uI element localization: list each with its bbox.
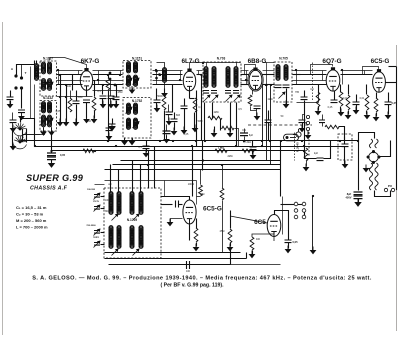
wire strip column down <box>312 197 314 251</box>
wire 6K7 bias resistor bottom <box>94 111 96 119</box>
wire drop x116 <box>116 85 118 97</box>
wire drop x103 <box>102 85 104 95</box>
wire osc link y160 <box>121 160 281 162</box>
svg-text:2MΩ: 2MΩ <box>227 155 232 158</box>
svg-text:50M: 50M <box>198 120 203 123</box>
wire antenna post to coil box <box>17 61 35 77</box>
wire x358 drop <box>358 141 360 191</box>
wire detector link down <box>318 93 320 103</box>
capacitor x116 <box>113 97 120 100</box>
junction bus x108 y141 <box>107 140 109 142</box>
wire 6L7 res down <box>194 113 196 129</box>
resistor AVC series left <box>83 149 94 153</box>
coil T3 primary b <box>127 75 131 86</box>
capacitor AVC bus <box>250 147 257 150</box>
coil output transformer primary top b <box>375 139 378 148</box>
junction channel b2 <box>65 96 67 98</box>
wire 8uF down <box>358 199 360 203</box>
wire injection coil down <box>164 83 166 93</box>
wire padder 1 <box>101 196 105 198</box>
resistor 6Q7 load <box>339 92 343 106</box>
wire driver plate <box>275 211 289 241</box>
junction bus x173 y141 <box>172 140 174 142</box>
wire coupling cap down <box>356 105 358 111</box>
ground T4 a <box>129 138 136 146</box>
wire 6Q7 grid leak top <box>318 85 320 93</box>
wire 6C5 bypass lead <box>388 93 390 103</box>
tube V5 6C5-G <box>373 70 386 93</box>
wire antenna cap lead <box>10 91 12 97</box>
coil osc 2a <box>117 192 121 215</box>
resistor IF grid leak <box>208 116 222 120</box>
ground 6B8 network <box>254 113 261 121</box>
svg-text:200: 200 <box>87 120 92 123</box>
coil T2 secondary <box>48 102 52 113</box>
terminal dots T3 left <box>109 72 117 87</box>
wire x157 lead <box>156 89 158 101</box>
coil T2 secondary b <box>48 115 52 127</box>
svg-text:400: 400 <box>256 238 261 241</box>
capacitor detector <box>301 97 308 100</box>
wire switch wafer link <box>26 129 28 143</box>
wire drop x212 below T5 <box>212 103 214 119</box>
ground below T5 a <box>211 130 218 138</box>
wire earth post down <box>21 89 23 109</box>
junction riser x156 y70 <box>155 69 157 71</box>
wire bottom bus c drop <box>230 249 232 265</box>
junction riser x180 y80 <box>179 79 181 81</box>
junction channel a <box>59 74 61 76</box>
wire riser x199 <box>198 71 200 75</box>
wire heater bus y70 x262 <box>263 70 275 72</box>
transformer T4 box (N.1752) <box>123 98 151 139</box>
ground x103 <box>100 101 107 109</box>
capacitor T5 tuning 3 <box>225 91 231 94</box>
wire 6C5 grid cap <box>363 67 379 75</box>
coil T1 primary <box>42 62 46 74</box>
resistor R1 screen <box>68 98 72 112</box>
capacitor filter 8uF b <box>354 196 363 199</box>
wire riser x246 <box>246 71 248 85</box>
wave-change switch wafer S1b <box>14 136 27 149</box>
coil T1 primary b <box>42 79 46 91</box>
wire top link T5 <box>203 62 241 64</box>
wire top link det <box>263 62 275 64</box>
wire grid bus y75 <box>57 74 83 76</box>
wire riser x266 <box>266 71 268 85</box>
junction x203 y160 <box>202 159 204 161</box>
resistor 6C5 cathode <box>374 98 378 112</box>
ground 6L7 cathode cap <box>181 127 188 135</box>
wire osc link left drop b <box>154 147 156 189</box>
svg-text:1MΩ: 1MΩ <box>267 98 272 101</box>
ground 8uF <box>354 199 361 207</box>
wire x230 lead <box>230 103 232 133</box>
wire x203 drop <box>202 141 204 171</box>
wire R1 lead <box>70 91 72 99</box>
trimmer arrow T3 primary <box>126 78 133 85</box>
wire drop x173 <box>172 85 174 113</box>
wire strip link a <box>298 204 303 206</box>
coil osc 1b <box>109 226 113 249</box>
trimmer arrow T4 b <box>133 122 140 129</box>
junction bus x51.5 y151 <box>50 150 52 152</box>
wire 6C5 plate to rail <box>386 82 397 84</box>
capacitor T5 tuning 4 <box>233 91 239 94</box>
junction x266 y85 <box>265 84 267 86</box>
svg-text:N.1132: N.1132 <box>43 96 53 100</box>
transformer T3 box (N.1151) <box>123 61 151 89</box>
capacitor 6K7 cathode bypass <box>83 100 90 103</box>
wire x146 down <box>146 149 148 153</box>
capacitor padder 2 <box>94 207 100 210</box>
resistor 6K7 cathode bias <box>92 97 96 111</box>
wire riser x156 <box>156 71 158 85</box>
wire cap C4 down <box>76 105 78 123</box>
ground driver output cap <box>285 246 292 254</box>
svg-text:100: 100 <box>186 270 191 273</box>
wire x283 drop low <box>282 197 284 235</box>
capacitor pot top <box>319 120 325 123</box>
wire driver grid top lead <box>222 165 224 189</box>
svg-text:25M: 25M <box>118 91 123 94</box>
wire 6Q7 plate cap lead <box>334 91 336 101</box>
wire riser x180 <box>180 71 182 81</box>
coil osc 2b <box>117 226 121 249</box>
wire 6Q7 grid leak down <box>318 107 320 111</box>
junction x201 y75 <box>200 74 202 76</box>
wire plate bus T4-6L7 y75 <box>153 74 183 76</box>
wire plate bus 6K7-T3 y75 <box>93 74 123 76</box>
coil antenna coupling <box>35 64 39 81</box>
wire riser x98 <box>98 71 100 85</box>
svg-text:Verde: Verde <box>93 200 100 203</box>
wire x108 down <box>108 91 110 141</box>
svg-text:6Q7-G: 6Q7-G <box>322 58 341 65</box>
svg-text:8µF: 8µF <box>249 134 254 137</box>
capacitor T5 tuning 1 <box>203 91 209 94</box>
wire screen bus 6K7-T3 y85 <box>93 84 123 86</box>
trimmer arrow T1 secondary <box>47 82 54 89</box>
svg-text:M = 200 – 560 m: M = 200 – 560 m <box>16 218 47 223</box>
trimmer arrow T3 secondary <box>133 78 140 85</box>
wire riser x296 <box>296 71 298 85</box>
wire 6C5 cathode down <box>376 113 378 117</box>
coil T2 primary <box>42 102 46 113</box>
junction y151 x304 <box>303 150 305 152</box>
wire T4 ground lead a <box>132 139 134 141</box>
junction riser x246 y80 <box>245 79 247 81</box>
junction riser x342 y70 <box>341 69 343 71</box>
wire heater bus y70 x93 <box>93 70 123 72</box>
wire 6B8 grid cap <box>245 65 256 75</box>
svg-text:10M: 10M <box>200 193 205 196</box>
wire x214 lead <box>214 127 216 133</box>
wire tone lead top <box>344 137 346 145</box>
junction top link <box>202 62 204 64</box>
wire big cap down <box>51 161 53 163</box>
junction riser x296 y70 <box>295 69 297 71</box>
wire AVC cap down <box>252 151 254 155</box>
coil T4 secondary b <box>134 118 138 129</box>
coil oscillator injection <box>163 68 167 83</box>
junction bus x281 y141 <box>280 140 282 142</box>
capacitor 6B8 bypass <box>254 106 261 109</box>
coil T5 winding 1 <box>204 67 208 88</box>
svg-text:1 MΩ: 1 MΩ <box>218 146 224 150</box>
wire screen T5-6B8 y85 <box>241 84 249 86</box>
capacitor 6L7 cathode <box>181 106 188 109</box>
ground driver cathode <box>249 251 256 259</box>
terminal PU b <box>391 188 394 191</box>
wire heater bus y70 x241 <box>241 70 249 72</box>
tube V3 6B8-G <box>248 68 263 91</box>
wire osc tube top <box>189 197 191 201</box>
capacitor T6 tuning 1 <box>275 85 282 88</box>
wire riser x322 <box>322 71 324 81</box>
ground AVC cap <box>250 152 257 160</box>
wire 6L7 grid cap lead <box>174 113 176 119</box>
coil T6 secondary <box>284 65 288 81</box>
svg-text:2µF: 2µF <box>314 152 319 155</box>
wire osc mid link y180 <box>105 180 197 182</box>
wire heater bus y70 x56.5 <box>57 70 83 72</box>
svg-text:6C5-G: 6C5-G <box>203 206 222 213</box>
svg-text:C₁ = 16,5 – 31 m: C₁ = 16,5 – 31 m <box>16 205 47 210</box>
wire under T5 link b <box>235 129 239 147</box>
junction bus x35 y146 <box>34 145 36 147</box>
wire y90 segment <box>93 90 123 92</box>
wire left column x34a <box>34 85 36 131</box>
resistor 6L7 cathode <box>193 98 197 112</box>
ground T2 secondary <box>48 128 55 136</box>
wire osc plate feed <box>192 147 194 197</box>
trimmer arrow T2 primary <box>41 118 48 125</box>
capacitor x157 <box>154 100 161 103</box>
svg-text:765: 765 <box>295 91 300 94</box>
capacitor driver output 0.05 <box>285 240 292 243</box>
wire det cap lead <box>304 91 306 97</box>
trimmer arrow T5 1 <box>204 95 211 102</box>
svg-text:100-550: 100-550 <box>87 189 96 191</box>
wire driver cap down <box>288 243 290 249</box>
wire osc right x165 <box>164 181 166 197</box>
svg-text:25M: 25M <box>220 230 225 233</box>
ground 6Q7 grid leak <box>315 108 322 116</box>
wire 6B8 right leads <box>263 74 275 76</box>
junction strip column <box>312 195 314 197</box>
trimmer arrow osc b <box>133 214 140 221</box>
ground 0.05 b <box>163 136 170 144</box>
wire osc top link <box>95 184 105 186</box>
resistor under T5 b <box>222 126 234 130</box>
page edge line left <box>2 22 4 335</box>
wire field coil bottom <box>375 191 391 197</box>
trimmer arrow T2 secondary <box>47 118 54 125</box>
ground injection coil <box>161 90 168 98</box>
svg-text:( Per BF v. G.99 pag. 119).: ( Per BF v. G.99 pag. 119). <box>160 283 224 289</box>
wire 8uF500 down <box>244 137 246 141</box>
junction riser x98 y80 <box>97 79 99 81</box>
terminal strip output <box>294 202 306 219</box>
svg-text:0,1: 0,1 <box>242 128 246 132</box>
resistor 6B8 load <box>248 95 252 106</box>
wire riser x342 <box>342 71 344 85</box>
wire heater bus y70 x340 <box>341 70 373 72</box>
coil T1 secondary <box>48 62 52 74</box>
wire riser x78 <box>78 71 80 75</box>
terminal PU a <box>384 188 387 191</box>
trimmer arrow padder 1 <box>94 193 101 200</box>
wire driver grid <box>230 216 267 223</box>
wire padder 4 <box>101 244 105 246</box>
wire osc cathode left <box>171 219 183 223</box>
wire 8uF500 lead <box>244 129 246 133</box>
capacitor padder 4 <box>94 243 100 246</box>
svg-text:Giallo: Giallo <box>93 236 100 239</box>
wire osc box drop 4 <box>140 165 142 193</box>
wire left terminal riser b <box>21 65 23 79</box>
ground T2 primary <box>40 128 47 136</box>
wire heater bus y70 x196 <box>197 70 203 72</box>
svg-text:N.705: N.705 <box>279 57 288 61</box>
wire strip lead b <box>304 213 306 216</box>
wire screen bus T4-6L7 y85 <box>153 84 183 86</box>
svg-text:0,05: 0,05 <box>56 110 61 113</box>
wire socket top <box>359 133 375 141</box>
svg-text:SUPER G.99: SUPER G.99 <box>26 173 84 183</box>
wire detector link y103 <box>297 102 319 104</box>
svg-text:0,05: 0,05 <box>60 153 66 157</box>
wire 6Q7 load lead <box>340 85 342 93</box>
svg-text:CHASSIS A.F: CHASSIS A.F <box>30 186 68 192</box>
junction osc plate feed <box>191 145 193 147</box>
wire 6K7 grid cap <box>50 58 65 61</box>
resistor 100 ohm osc plate <box>199 185 203 196</box>
wire channel vertical a <box>60 75 62 123</box>
wire osc link left drop a <box>148 151 150 189</box>
wire T3 left cap lead <box>110 79 112 97</box>
capacitor filter 8uF <box>354 192 363 195</box>
wire x157 down <box>156 103 158 109</box>
junction bus x196 y141 <box>195 140 197 142</box>
ground 6K7 cathode <box>83 116 90 124</box>
tone network box <box>338 134 352 160</box>
wire bias bus y80 x56.5 <box>57 80 83 82</box>
coil T5 winding 4 <box>234 67 238 88</box>
wire screen bus y85 <box>57 84 83 86</box>
svg-text:C₂ = 30 – 53 m: C₂ = 30 – 53 m <box>16 212 44 217</box>
ground big cap <box>48 160 55 168</box>
ground under pot <box>303 164 310 172</box>
svg-text:N.1752: N.1752 <box>132 99 143 103</box>
wire x302 down <box>302 123 304 129</box>
transformer T2 box (N.1132) <box>40 101 57 132</box>
wire bus y151 <box>52 150 305 152</box>
resistor driver cathode <box>250 237 254 250</box>
trimmer arrow T5 2 <box>212 95 219 102</box>
wire 6L7 cap lead <box>184 99 186 107</box>
junction bus x358 y141 <box>357 140 359 142</box>
svg-text:700-2900: 700-2900 <box>86 225 96 227</box>
svg-text:T: T <box>25 71 27 75</box>
junction riser x120 y75 <box>119 74 121 76</box>
wire osc plate <box>161 197 190 201</box>
junction y141 x205 <box>204 140 206 142</box>
wire osc grid leak down <box>196 243 198 247</box>
coil speaker field <box>369 163 372 190</box>
svg-text:8µF: 8µF <box>347 192 352 196</box>
wire T2 gnd lead a <box>43 127 45 132</box>
ground x146 <box>143 150 150 158</box>
wire driver cathode <box>252 234 274 241</box>
capacitor padder 3 <box>94 231 100 234</box>
wire drop x236 below T5 <box>236 103 238 147</box>
wave-change switch wafer S1a <box>14 123 27 136</box>
wire pot switch dashed <box>308 132 310 157</box>
capacitor screen 6K7 <box>100 96 107 99</box>
transformer T1 box (N.1137) <box>40 61 57 96</box>
page edge line right upper <box>396 45 398 66</box>
wire x164 top <box>164 89 166 97</box>
junction bus x22 y141 <box>21 140 23 142</box>
wire channel vertical c <box>72 75 74 91</box>
oscillator coil box N.1729 <box>104 188 161 258</box>
ground coupling <box>353 107 360 115</box>
ground x367 <box>364 112 371 120</box>
trimmer arrow osc c <box>112 249 119 256</box>
wire left edge cap <box>12 113 14 121</box>
wire bias bus y80 x152 <box>153 80 183 82</box>
svg-text:6C5-G: 6C5-G <box>371 58 390 65</box>
wire x201 long drop <box>201 75 203 141</box>
ground x112 <box>109 124 116 132</box>
ground T3 left b <box>106 133 113 141</box>
wire padder 3 <box>101 232 105 234</box>
wire x266 drop <box>266 85 268 161</box>
ground 6L7 grid cap <box>171 128 178 136</box>
ground tone <box>342 161 349 169</box>
wire rail top <box>389 66 397 68</box>
wire left column x30 <box>30 67 32 119</box>
wire driver grid col down <box>222 201 224 253</box>
capacitor osc grid <box>176 201 179 208</box>
trimmer arrow padder 4 <box>94 241 101 248</box>
wire T4 ground lead b <box>124 139 126 141</box>
ground x116 <box>113 101 120 109</box>
wire injection coil top <box>157 63 165 69</box>
resistor 6C5 grid <box>346 95 350 110</box>
capacitor 6C5 cathode bypass <box>385 102 392 105</box>
svg-text:0,01: 0,01 <box>343 97 348 100</box>
capacitor series bus 100pF <box>187 261 190 269</box>
wire T3 centre tap lead <box>132 89 134 90</box>
junction x160 y75 <box>159 74 161 76</box>
wire dashed x295 <box>294 133 296 161</box>
wire bus y146 <box>35 146 345 148</box>
resistor AVC 1 Mohm <box>215 149 227 153</box>
wire osc box drop 3 <box>132 161 134 193</box>
wire 0.05 b lead <box>166 125 168 131</box>
svg-text:0,05: 0,05 <box>292 240 298 244</box>
wire bus det-6Q7 y85 <box>293 84 327 86</box>
coil T5 winding 2 <box>212 67 216 88</box>
wire osc box drop 2 <box>118 170 120 193</box>
wire bias bus y80 x241 <box>241 80 249 82</box>
svg-text:N.1151: N.1151 <box>132 57 142 61</box>
tube V2 6L7-G <box>183 69 195 91</box>
coil T4 primary b <box>127 118 131 129</box>
